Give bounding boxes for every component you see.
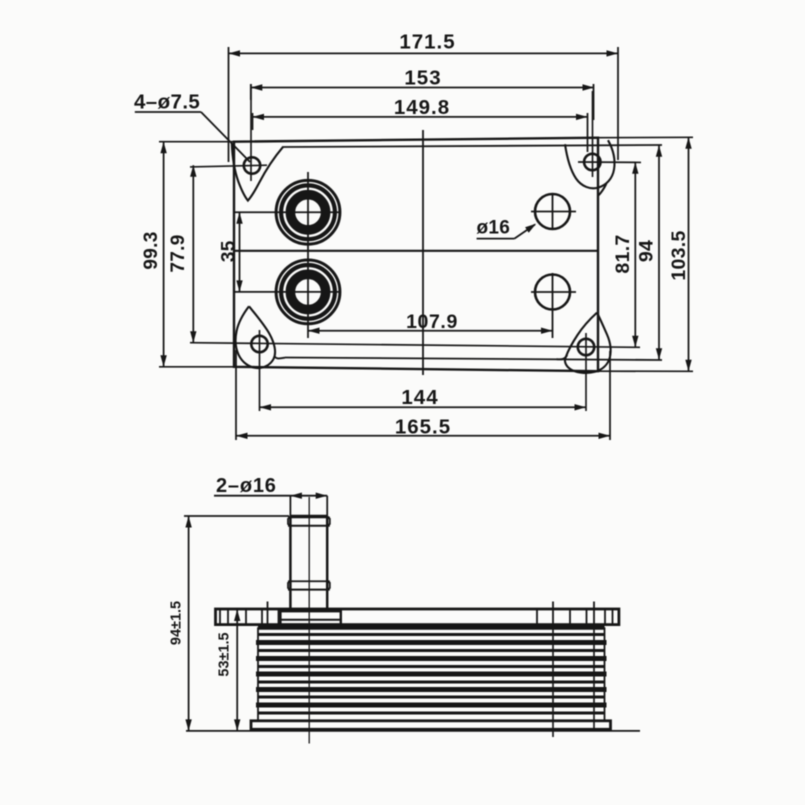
leader ø16 bbox=[477, 238, 515, 240]
svg-text:35: 35 bbox=[219, 240, 240, 262]
fin stack side edges bbox=[257, 627, 259, 721]
svg-text:107.9: 107.9 bbox=[406, 311, 458, 333]
svg-text:99.3: 99.3 bbox=[141, 231, 162, 269]
svg-text:103.5: 103.5 bbox=[668, 230, 690, 280]
dimension 53±1.5 bbox=[236, 610, 238, 731]
leader 4-ø7.5 bbox=[135, 111, 201, 113]
flange (top plate, side view) bbox=[216, 609, 619, 625]
dimension 77.9 bbox=[192, 165, 194, 342]
bottom extension line bbox=[186, 730, 640, 732]
centerline marks right (side view) bbox=[552, 625, 554, 737]
svg-text:149.8: 149.8 bbox=[394, 96, 450, 119]
bottom plate of stack bbox=[251, 721, 611, 730]
dimension 103.5 bbox=[598, 136, 693, 138]
hole top-right (ø7.5) bbox=[584, 154, 600, 170]
dimension 165.5 bbox=[235, 350, 237, 440]
svg-text:2–ø16: 2–ø16 bbox=[216, 475, 277, 497]
rim line top bbox=[282, 145, 662, 147]
rim line bottom bbox=[285, 358, 662, 361]
flange ticks right bbox=[536, 609, 538, 625]
dimension 153 bbox=[250, 84, 252, 100]
svg-text:153: 153 bbox=[404, 67, 441, 90]
svg-text:4–ø7.5: 4–ø7.5 bbox=[134, 91, 200, 114]
ear bottom-left bbox=[236, 306, 275, 368]
svg-text:94±1.5: 94±1.5 bbox=[169, 601, 185, 645]
dimension 144 bbox=[260, 406, 587, 408]
dimension 81.7 bbox=[634, 162, 636, 347]
dimension 149.8 bbox=[252, 113, 254, 130]
hole ø16 top bbox=[535, 194, 570, 229]
port bottom (oil port boss) bbox=[276, 260, 340, 324]
dimension 99.3 bbox=[159, 141, 234, 143]
pipe bead ring lower bbox=[288, 581, 330, 589]
svg-text:ø16: ø16 bbox=[477, 217, 511, 238]
svg-text:53±1.5: 53±1.5 bbox=[217, 632, 233, 676]
svg-text:165.5: 165.5 bbox=[395, 415, 451, 438]
flange ticks left bbox=[219, 609, 221, 625]
dimension 94±1.5 bbox=[184, 515, 289, 517]
plate outline (top view trapezoid) bbox=[234, 138, 598, 372]
ear bottom-right bbox=[565, 313, 611, 373]
pipe (2-ø16) bbox=[289, 516, 292, 609]
svg-text:81.7: 81.7 bbox=[612, 234, 634, 273]
hole bottom-left (ø7.5) bbox=[251, 336, 267, 352]
dimension 94 bbox=[658, 145, 660, 360]
port top (oil port boss) bbox=[276, 180, 340, 244]
svg-text:77.9: 77.9 bbox=[168, 234, 189, 272]
pipe centerline bbox=[308, 497, 310, 744]
horizontal centerline of plate bbox=[235, 250, 597, 252]
dimension 107.9 bbox=[308, 330, 553, 332]
svg-text:144: 144 bbox=[401, 386, 438, 409]
hole ø16 bottom bbox=[535, 275, 570, 310]
svg-text:171.5: 171.5 bbox=[399, 30, 455, 53]
dimension 35 bbox=[239, 212, 241, 292]
pipe bead ring upper bbox=[288, 517, 330, 526]
dimension 171.5 bbox=[228, 47, 230, 162]
pipe base on flange bbox=[280, 611, 340, 624]
fin stack bbox=[256, 627, 607, 705]
svg-text:94: 94 bbox=[636, 240, 658, 262]
hole top-left (ø7.5) bbox=[244, 157, 260, 173]
hole bottom-right (ø7.5) bbox=[578, 339, 594, 355]
dimension 2-ø16 bbox=[214, 495, 327, 497]
ear top-right bbox=[565, 140, 614, 188]
ear top-left bbox=[232, 143, 283, 200]
vertical centerline of plate bbox=[422, 130, 424, 375]
